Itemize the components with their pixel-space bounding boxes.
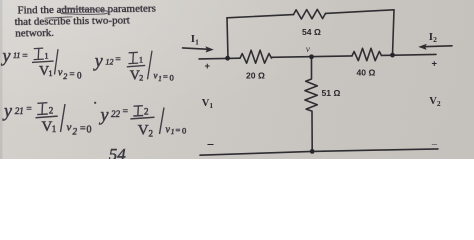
eq y21 (2, 100, 92, 136)
wire left vertical (227, 18, 228, 59)
arrowhead I2 (418, 44, 427, 50)
current arrow I2 (423, 45, 452, 48)
current arrow I1 (183, 48, 210, 49)
circuit labels (191, 27, 441, 110)
wire node segment (272, 56, 353, 57)
label minus right (432, 144, 437, 146)
resistor R 40ohm zigzag (352, 48, 381, 60)
resistor R 20ohm zigzag (240, 50, 271, 63)
arrowhead I1 (205, 46, 214, 52)
node junction right dot (390, 53, 395, 58)
wire right mid segment (381, 54, 436, 55)
node junction v dot (309, 54, 314, 59)
label minus left (208, 143, 214, 145)
wire bottom rail (200, 149, 438, 155)
eq y22 (99, 104, 187, 138)
wire top rail left segment (227, 15, 294, 18)
node junction bottom dot (310, 149, 315, 154)
wire right vertical (393, 10, 395, 55)
resistor R 54ohm zigzag (294, 9, 326, 19)
node junction left dot (225, 56, 230, 61)
pencil strike under describe (45, 17, 73, 18)
wire middle rail left stub (199, 57, 240, 60)
resistor R 51ohm vertical zigzag (305, 57, 317, 152)
eq y11 (1, 45, 83, 80)
wire top rail right segment (326, 10, 395, 14)
pencil loop around word admittance (59, 9, 109, 14)
stray dot (94, 102, 96, 104)
eq y12 (93, 51, 174, 84)
printed problem statement (14, 2, 156, 39)
